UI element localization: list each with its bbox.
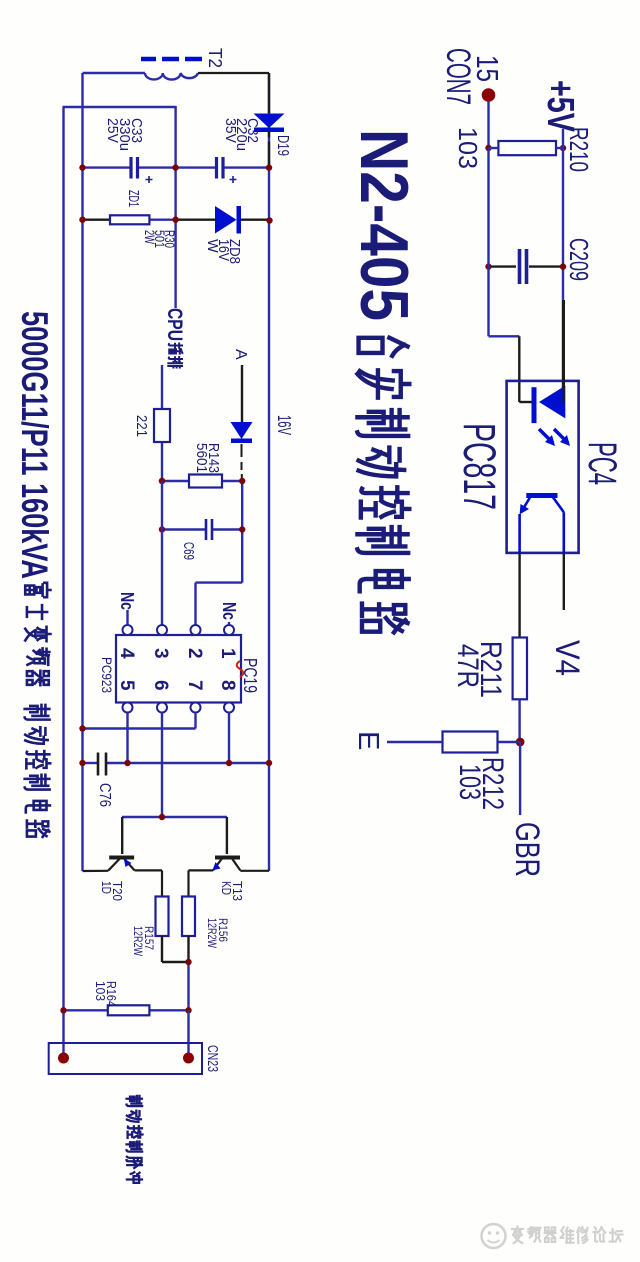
label T20	[99, 881, 124, 901]
wire pin5	[126, 713, 128, 764]
wire R211 to node	[518, 699, 520, 742]
label 16V	[274, 415, 294, 435]
resistor R143	[162, 475, 242, 488]
label R156	[205, 918, 230, 949]
label C32	[222, 118, 261, 151]
svg-text:12R2W: 12R2W	[205, 918, 219, 949]
wire pin7 to top rail	[83, 713, 196, 729]
svg-text:3: 3	[150, 648, 171, 659]
label PC817	[454, 423, 505, 510]
label C69	[180, 542, 197, 560]
svg-text:103: 103	[453, 127, 483, 169]
label R211	[451, 641, 507, 698]
label C76	[96, 783, 113, 807]
resistor R157	[156, 897, 169, 937]
label R157	[131, 926, 156, 957]
label 15	[470, 55, 505, 82]
label T2	[205, 48, 225, 68]
svg-text:T2: T2	[205, 48, 225, 68]
label R210	[564, 127, 594, 172]
wire outer loop left riser	[63, 106, 176, 108]
label PC923	[99, 657, 115, 693]
junction dot V-node	[516, 738, 525, 747]
label 221	[133, 415, 150, 437]
resistor R212	[443, 732, 498, 753]
label R143	[193, 443, 222, 473]
svg-text:C76: C76	[96, 783, 113, 807]
zener diode ZD8	[176, 206, 269, 234]
svg-text:PC923: PC923	[99, 657, 115, 693]
wire net bottom rail (outer loop)	[62, 107, 64, 1058]
svg-text:2W: 2W	[142, 230, 157, 244]
junction dot emitter join	[185, 959, 191, 965]
resistor R164	[64, 1005, 189, 1015]
svg-text:PC4: PC4	[580, 442, 624, 485]
junction dots C33/C32/R30/ZD8	[79, 164, 272, 223]
svg-text:12R2W: 12R2W	[131, 926, 145, 957]
label D19	[274, 135, 291, 156]
wire +5V rail	[562, 129, 564, 401]
resistor 221	[154, 365, 170, 481]
junction dots R143/C69 right	[159, 478, 246, 533]
svg-text:7: 7	[184, 680, 205, 691]
label E	[352, 731, 384, 750]
label Nc pin4	[117, 592, 137, 625]
wire V4 stub	[563, 553, 565, 610]
capacitor C32	[176, 157, 269, 183]
label pin numbers	[116, 648, 238, 691]
label brake control pulse (制动控制脉冲)	[127, 1096, 143, 1183]
svg-text:CON7: CON7	[439, 48, 477, 105]
wire node to pin3	[161, 481, 163, 629]
svg-text:CN23: CN23	[204, 1045, 221, 1072]
label ZD8	[204, 239, 242, 264]
wire emitter join	[162, 936, 189, 1010]
junction dots R164	[60, 1007, 191, 1013]
junction dot node A-left	[159, 478, 165, 484]
label PC19	[240, 658, 260, 693]
label PC4	[580, 442, 624, 485]
svg-text:C69: C69	[180, 542, 197, 560]
wire pin6	[161, 713, 163, 818]
label CN23	[204, 1045, 221, 1072]
diode A	[231, 349, 253, 481]
wire LED cathode feed	[489, 148, 520, 402]
transistor T13	[189, 817, 270, 897]
label R212	[453, 757, 509, 810]
svg-text:4: 4	[116, 648, 137, 659]
svg-text:+5V: +5V	[539, 80, 581, 132]
svg-text:N2-405: N2-405	[346, 129, 422, 321]
svg-text:E: E	[352, 731, 384, 750]
junction dots C209	[485, 263, 566, 269]
label GBR	[508, 822, 546, 877]
svg-text:D19: D19	[274, 135, 291, 156]
svg-text:103: 103	[93, 981, 107, 1001]
label CPU socket (CPU插排)	[163, 308, 186, 368]
svg-text:5000G11/P11 160kVA: 5000G11/P11 160kVA	[14, 311, 55, 579]
op-amp/optocoupler U-PC923 body	[116, 625, 241, 713]
wire CPU feed line	[174, 106, 176, 308]
svg-text:PC817: PC817	[454, 423, 505, 510]
wire pin8	[228, 713, 230, 764]
svg-text:R210: R210	[564, 127, 594, 172]
label +5V	[539, 80, 581, 132]
junction dot pin6/base	[159, 814, 165, 820]
svg-text:CPU: CPU	[163, 308, 186, 341]
label ZD1	[125, 190, 142, 207]
transformer T2	[83, 59, 270, 80]
red mark on PC19	[237, 661, 244, 677]
svg-text:A: A	[232, 349, 249, 360]
wire T2 top rail	[81, 73, 83, 871]
wire CON7 to R210	[487, 101, 489, 148]
label T13	[219, 881, 244, 901]
wire node to pin2	[196, 481, 243, 629]
svg-text:47R: 47R	[451, 644, 484, 688]
label 5000G11/P11 annotation	[14, 311, 55, 837]
svg-text:V4: V4	[548, 640, 586, 676]
svg-text:1D: 1D	[99, 881, 113, 894]
svg-text:5601: 5601	[193, 443, 210, 473]
svg-text:5: 5	[116, 680, 137, 691]
junction dot R210 bottom	[485, 145, 566, 151]
svg-text:16V: 16V	[274, 415, 294, 435]
svg-text:KD: KD	[219, 881, 233, 895]
svg-text:6: 6	[150, 680, 171, 691]
svg-text:103: 103	[453, 764, 486, 800]
wire 16V rail	[268, 73, 270, 871]
LED emission arrows	[539, 429, 570, 446]
wire R212 to E	[387, 741, 443, 743]
svg-text:Nc: Nc	[117, 592, 137, 610]
svg-text:8: 8	[217, 680, 238, 691]
svg-text:GBR: GBR	[508, 822, 546, 877]
label C33	[104, 118, 145, 151]
capacitor C76	[83, 753, 270, 776]
label 103 (R210)	[453, 127, 483, 169]
label Nc pin1	[219, 602, 239, 625]
resistor R211	[513, 638, 527, 700]
label C209	[564, 238, 594, 281]
LED inside PC4	[519, 300, 565, 423]
label CON7	[439, 48, 477, 105]
capacitor C69	[162, 519, 242, 540]
svg-text:1: 1	[217, 648, 238, 659]
junction dots C76 line	[79, 760, 272, 766]
resistor R210	[489, 141, 564, 155]
connector CN23	[49, 1010, 202, 1074]
diode D19	[254, 73, 285, 168]
svg-text:221: 221	[133, 415, 150, 437]
label R30	[142, 230, 177, 248]
resistor R156	[182, 897, 195, 937]
watermark logo and text	[458, 1204, 640, 1262]
wire to GBR	[519, 742, 521, 815]
svg-text:Nc: Nc	[219, 602, 239, 620]
svg-text:ZD1: ZD1	[125, 190, 142, 207]
capacitor C209	[520, 249, 527, 284]
wire node to R212	[498, 741, 520, 743]
svg-text:2: 2	[184, 648, 205, 659]
optocoupler PC4 body	[507, 381, 579, 553]
node CON7 pin15	[482, 88, 496, 102]
junction dot pin7/top-rail	[79, 725, 85, 731]
phototransistor inside PC4	[520, 496, 564, 553]
wire base feed	[122, 816, 227, 818]
resistor R30	[83, 215, 176, 224]
capacitor C33	[83, 157, 176, 183]
svg-text:25V: 25V	[104, 118, 121, 143]
wire C209 branch	[489, 265, 564, 267]
transistor T20	[83, 817, 163, 897]
svg-text:C209: C209	[564, 238, 594, 281]
svg-text:35V: 35V	[222, 118, 239, 143]
title N2-405 (台安制动控制电路)	[346, 129, 422, 632]
wire emitter to R211	[518, 553, 520, 638]
label R164	[93, 981, 118, 1007]
label V4	[548, 640, 586, 676]
svg-text:W: W	[204, 239, 220, 253]
